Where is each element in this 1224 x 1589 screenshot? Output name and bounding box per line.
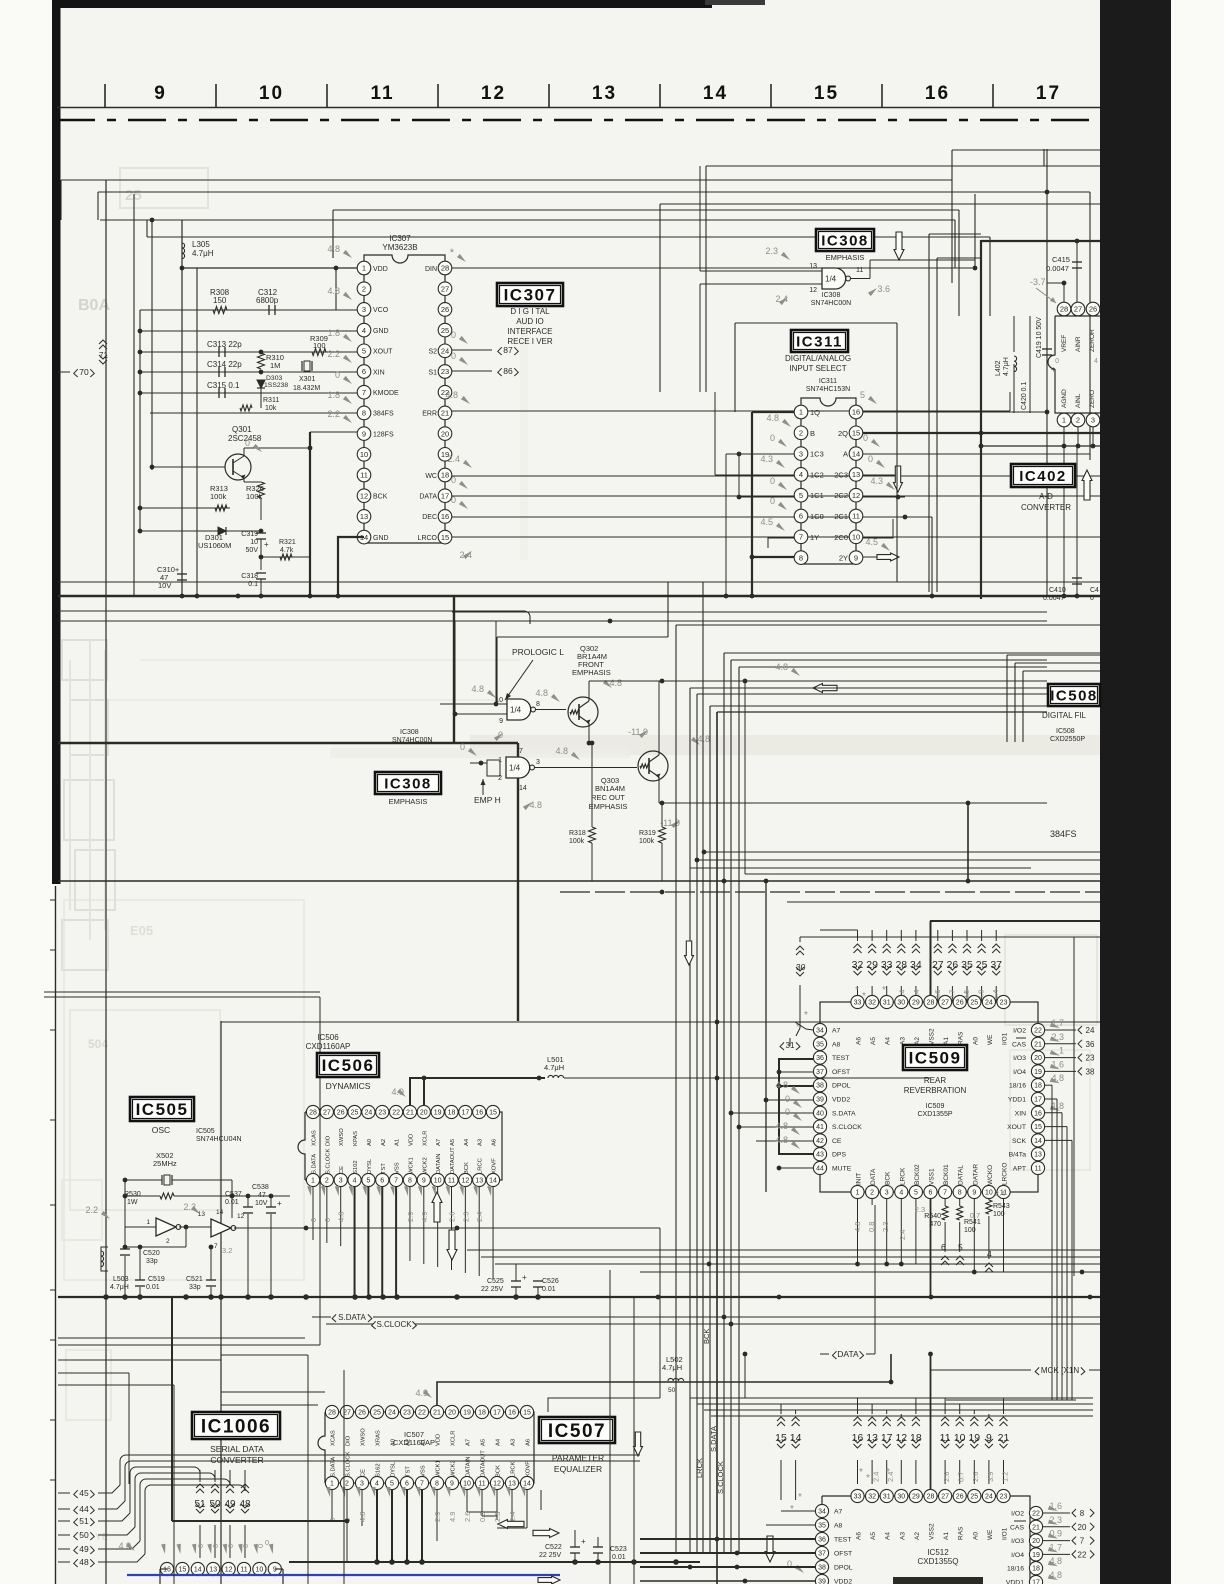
svg-text:6: 6 (380, 1178, 384, 1185)
svg-text:CE: CE (361, 1469, 367, 1477)
svg-text:*: * (790, 1504, 794, 1515)
svg-text:4.8: 4.8 (337, 1212, 346, 1222)
svg-text:4.8: 4.8 (1051, 1073, 1064, 1083)
svg-text:1C0: 1C0 (810, 512, 824, 521)
svg-text:4.9: 4.9 (448, 1512, 457, 1522)
svg-text:XOVF: XOVF (492, 1158, 498, 1174)
svg-text:2.3: 2.3 (1049, 1515, 1062, 1525)
svg-text:I/O4: I/O4 (1011, 1552, 1024, 1559)
IC509 pin 36 TEST (813, 1051, 826, 1064)
svg-text:44: 44 (79, 1504, 89, 1514)
svg-text:17: 17 (1036, 83, 1061, 104)
svg-text:LRCC: LRCC (478, 1158, 484, 1174)
svg-text:TST: TST (406, 1466, 412, 1477)
svg-text:RAS: RAS (958, 1031, 965, 1045)
svg-text:1: 1 (1059, 1046, 1064, 1056)
svg-text:1.2: 1.2 (1000, 1472, 1009, 1482)
IC509 pin 14 SCK (1031, 1134, 1044, 1147)
svg-text:A6: A6 (856, 1532, 863, 1540)
IC307 pin 4 GND (357, 323, 371, 337)
svg-text:S.DATA: S.DATA (832, 1110, 856, 1117)
svg-text:0: 0 (451, 495, 456, 505)
IC307 pin 13 (357, 510, 371, 524)
svg-text:100: 100 (993, 1211, 1005, 1218)
svg-text:WCK2: WCK2 (422, 1157, 428, 1174)
capacitor C319 (256, 532, 266, 534)
svg-text:9: 9 (854, 553, 858, 562)
IC509 pin 32 A5 (866, 995, 879, 1008)
capacitor C410 (1076, 446, 1078, 596)
IC509 pin 4 LRCK (895, 1185, 908, 1198)
svg-text:XOUT: XOUT (1007, 1124, 1026, 1131)
svg-text:A8: A8 (834, 1523, 843, 1530)
IC509 chip body (820, 1002, 1038, 1192)
svg-text:A7: A7 (832, 1028, 841, 1035)
svg-text:IC1006: IC1006 (201, 1416, 271, 1437)
svg-text:7: 7 (420, 1481, 424, 1488)
svg-text:16: 16 (508, 1410, 516, 1417)
svg-text:15: 15 (489, 1110, 497, 1117)
wire ERR pin21 (452, 410, 1010, 412)
svg-text:0.7: 0.7 (970, 1211, 980, 1220)
svg-text:OFST: OFST (834, 1551, 852, 1558)
IC507 pin 5 DYSL (385, 1476, 398, 1489)
svg-text:4.8: 4.8 (853, 1222, 862, 1232)
svg-text:100k: 100k (639, 838, 655, 845)
svg-text:A3: A3 (511, 1439, 517, 1446)
svg-text:S.DATA: S.DATA (312, 1154, 318, 1174)
svg-text:4.8: 4.8 (1049, 1570, 1062, 1580)
svg-text:*: * (804, 1010, 808, 1021)
IC507 pin 19 A7 (460, 1405, 473, 1418)
svg-text:-11.9: -11.9 (660, 818, 680, 828)
IC507 pin 9 WCK2 (445, 1476, 458, 1489)
svg-text:A5: A5 (870, 1532, 877, 1540)
IC506 bottom pin wires (312, 1187, 314, 1240)
IC509 pin 29 A2 (909, 995, 922, 1008)
svg-text:BCK: BCK (702, 1329, 711, 1344)
svg-text:11: 11 (448, 1178, 455, 1185)
horizontal wire y681 (589, 680, 1047, 682)
IC509 section frame (930, 920, 1100, 922)
svg-text:16: 16 (441, 512, 449, 521)
small box at bottom (893, 1577, 983, 1584)
svg-text:I/O1: I/O1 (1002, 1032, 1009, 1045)
svg-text:I/O2: I/O2 (1011, 1511, 1024, 1518)
wire DATA pin17 (452, 495, 1100, 497)
IC311 pin 10 2C0 (849, 530, 863, 544)
svg-text:4.7μH: 4.7μH (1003, 357, 1010, 376)
IC311 pin 13 2C3 (849, 468, 863, 482)
thick vertical x518 down (517, 743, 519, 1021)
svg-text:22: 22 (392, 1110, 400, 1117)
svg-text:X301: X301 (299, 376, 315, 383)
svg-text:S1: S1 (428, 369, 437, 376)
svg-text:WE: WE (987, 1529, 994, 1540)
IC512 pin 33 A6 (851, 1489, 864, 1502)
svg-text:22: 22 (1034, 1028, 1042, 1035)
vertical section border x221 (220, 1021, 222, 1584)
svg-text:35: 35 (818, 1523, 826, 1530)
svg-text:C521: C521 (186, 1276, 203, 1283)
svg-text:1/4: 1/4 (509, 764, 521, 773)
svg-text:C420 0.1: C420 0.1 (1021, 381, 1028, 410)
svg-text:LRCK: LRCK (511, 1461, 517, 1477)
svg-text:C523: C523 (610, 1546, 627, 1553)
IC509 pin 2 DATA (866, 1185, 879, 1198)
svg-text:5: 5 (799, 491, 803, 500)
svg-text:XCAS: XCAS (312, 1130, 318, 1146)
svg-text:100k: 100k (569, 838, 585, 845)
svg-text:S.CLOCK: S.CLOCK (716, 1461, 725, 1494)
thick wires to pins 36-44 (779, 1059, 813, 1154)
svg-text:DEC: DEC (422, 514, 437, 521)
svg-text:VDD2: VDD2 (832, 1097, 850, 1104)
IC506 pin 15 A6 (486, 1105, 499, 1118)
svg-text:S2: S2 (428, 349, 437, 356)
svg-text:C415: C415 (1052, 255, 1070, 264)
wire to ADC pins (1063, 283, 1065, 302)
svg-text:0: 0 (785, 1107, 790, 1117)
IC307 pin 16 DEC (438, 510, 452, 524)
svg-text:1.8: 1.8 (1051, 1101, 1064, 1111)
svg-text:26: 26 (956, 1000, 964, 1007)
svg-text:10: 10 (463, 1481, 471, 1488)
small connector box gate B input (487, 760, 500, 776)
svg-text:4.8: 4.8 (775, 1080, 788, 1090)
svg-text:4.8: 4.8 (358, 1512, 367, 1522)
svg-text:11: 11 (856, 267, 863, 274)
svg-text:A4: A4 (885, 1532, 892, 1540)
svg-text:0: 0 (770, 476, 775, 486)
IC311 pin 9 2Y (849, 551, 863, 565)
svg-text:4.8: 4.8 (697, 734, 710, 744)
thick vertical feeder x752 (751, 412, 753, 596)
IC307 pin 5 XOUT (357, 344, 371, 358)
svg-text:6: 6 (799, 512, 803, 521)
svg-text:IC308: IC308 (822, 292, 841, 299)
svg-text:22 25V: 22 25V (539, 1552, 562, 1559)
svg-text:18/16: 18/16 (1009, 1083, 1026, 1090)
svg-text:0: 0 (770, 433, 775, 443)
svg-text:BN1A4M: BN1A4M (595, 784, 625, 793)
IC402 label box (1011, 464, 1075, 487)
svg-text:A1: A1 (421, 1439, 427, 1446)
thick wire to IC512 pin 28 (930, 1354, 932, 1489)
svg-text:2.9: 2.9 (433, 1512, 442, 1522)
svg-text:25: 25 (441, 326, 449, 335)
IC311 pin 6 1C0 (794, 509, 808, 523)
svg-text:A6: A6 (526, 1439, 532, 1446)
svg-text:15: 15 (523, 1410, 531, 1417)
svg-text:2.6: 2.6 (942, 1472, 951, 1482)
svg-text:2.4: 2.4 (995, 1189, 1005, 1198)
svg-text:23: 23 (378, 1110, 386, 1117)
svg-text:25: 25 (970, 1000, 978, 1007)
svg-text:17: 17 (1032, 1580, 1040, 1584)
svg-text:B/4Ta: B/4Ta (1009, 1152, 1027, 1159)
svg-text:12: 12 (481, 83, 506, 104)
IC506 pin 20 XCLR (417, 1105, 430, 1118)
svg-text:7: 7 (1080, 1537, 1085, 1546)
IC311 pin 2 B (794, 426, 808, 440)
IC509 pin 18 18/16 (1031, 1079, 1044, 1092)
svg-text:A6: A6 (492, 1139, 498, 1146)
svg-text:2.3: 2.3 (765, 246, 778, 256)
IC512 pin 31 A4 (880, 1489, 893, 1502)
IC506 pin 27 DIO (320, 1105, 333, 1118)
svg-text:YM3623B: YM3623B (382, 243, 417, 252)
IC307 pin 20 (438, 427, 452, 441)
svg-text:REC OUT: REC OUT (591, 793, 625, 802)
svg-text:13: 13 (209, 1567, 217, 1574)
transistor Q302 front emphasis (568, 697, 598, 727)
svg-text:13: 13 (852, 470, 860, 479)
svg-text:70: 70 (79, 367, 89, 377)
svg-text:DPOL: DPOL (832, 1083, 851, 1090)
svg-text:CXD1160AP: CXD1160AP (393, 1438, 435, 1447)
wire S2 to connector 87 (452, 349, 492, 351)
hollow arrow right bottom (538, 1576, 560, 1584)
svg-text:A4: A4 (464, 1138, 470, 1146)
svg-text:26: 26 (441, 305, 449, 314)
svg-text:44: 44 (816, 1166, 824, 1173)
IC506 pin 28 XCAS (306, 1105, 319, 1118)
svg-text:2: 2 (325, 1178, 329, 1185)
svg-text:29: 29 (912, 1494, 920, 1501)
IC507 pin 23 A2 (400, 1405, 413, 1418)
svg-text:1W: 1W (127, 1199, 138, 1206)
svg-text:26: 26 (956, 1494, 964, 1501)
svg-text:37: 37 (818, 1551, 826, 1558)
svg-text:CXD1160AP: CXD1160AP (306, 1042, 351, 1051)
svg-text:34: 34 (818, 1509, 826, 1516)
svg-text:19: 19 (434, 1110, 442, 1117)
IC506 pin 4 S102 (348, 1173, 361, 1186)
IC507 pin 17 A4 (490, 1405, 503, 1418)
svg-text:13: 13 (475, 1178, 483, 1185)
svg-text:1/4: 1/4 (825, 275, 837, 284)
svg-text:IC506: IC506 (317, 1033, 339, 1042)
IC507 pin 3 CE (355, 1476, 368, 1489)
svg-text:27: 27 (941, 1494, 949, 1501)
IC311 chip body (801, 398, 856, 406)
hollow arrow down near IC308 (894, 232, 904, 260)
svg-text:128FS: 128FS (373, 431, 394, 438)
svg-text:33p: 33p (146, 1258, 158, 1265)
IC307 pin 24 S2 (438, 344, 452, 358)
svg-text:SN74HC00N: SN74HC00N (811, 300, 851, 307)
IC506 pin 21 VDD (403, 1105, 416, 1118)
IC507 pin 12 BCK (490, 1476, 503, 1489)
svg-text:86: 86 (503, 366, 513, 376)
svg-text:11: 11 (360, 471, 368, 480)
svg-text:38: 38 (818, 1565, 826, 1572)
svg-text:9: 9 (972, 1190, 976, 1197)
svg-text:16: 16 (163, 1567, 171, 1574)
IC512 chip body (822, 1496, 1030, 1584)
svg-text:4.9: 4.9 (118, 1541, 131, 1551)
svg-text:S.DATA: S.DATA (338, 1313, 366, 1322)
svg-text:A4: A4 (496, 1438, 502, 1446)
IC506 pin 14 XOVF (486, 1173, 499, 1186)
lower area horizontal stubs (221, 1391, 325, 1393)
IC509 pin 11 LRCKO (997, 1185, 1010, 1198)
bottom chip pin 14 (191, 1562, 204, 1575)
svg-text:40: 40 (816, 1110, 824, 1117)
svg-text:A7: A7 (466, 1439, 472, 1446)
svg-text:REVERBRATION: REVERBRATION (904, 1086, 967, 1095)
svg-text:B: B (810, 429, 815, 438)
IC307 pin 2 (357, 282, 371, 296)
svg-text:S.CLOCK: S.CLOCK (832, 1124, 862, 1131)
svg-text:BCK: BCK (885, 1171, 892, 1185)
thick vertical x968 (967, 803, 969, 881)
svg-text:14: 14 (1034, 1138, 1042, 1145)
svg-text:DATA: DATA (837, 1349, 859, 1359)
svg-text:IC508: IC508 (1056, 728, 1075, 735)
transistor Q303 rec out emphasis (638, 751, 668, 781)
svg-text:25: 25 (976, 959, 988, 971)
svg-text:2.4: 2.4 (508, 1512, 517, 1522)
IC509 pin 3 BCK (880, 1185, 893, 1198)
wire gate A output to Q302 (536, 709, 566, 711)
inverter gate 2 (211, 1219, 231, 1237)
IC506 chip body (298, 1112, 502, 1180)
IC509 pin 40 S.DATA (813, 1106, 826, 1119)
IC308 label box lower (375, 772, 441, 794)
wire 128FS pin9 (310, 431, 357, 433)
svg-text:A5: A5 (481, 1439, 487, 1446)
IC307 pin 27 (438, 282, 452, 296)
svg-text:*: * (859, 1467, 863, 1478)
IC311 pin 3 1C3 (794, 447, 808, 461)
svg-text:SN74HC153N: SN74HC153N (806, 386, 850, 393)
svg-text:1: 1 (362, 264, 366, 273)
svg-text:3: 3 (362, 305, 366, 314)
resistor R541 (957, 1206, 963, 1220)
svg-text:8: 8 (408, 1178, 412, 1185)
svg-text:3: 3 (799, 449, 803, 458)
svg-text:AUD IO: AUD IO (516, 317, 544, 326)
wire DIN pin 28 (452, 267, 975, 269)
svg-text:A5: A5 (450, 1139, 456, 1146)
IC509 pin 30 A3 (895, 995, 908, 1008)
inverter2 output wire (234, 1227, 660, 1229)
IC506 pin 7 VSS (390, 1173, 403, 1186)
IC507 pin 2 S.CLOCK (340, 1476, 353, 1489)
svg-text:7: 7 (362, 388, 366, 397)
svg-text:+: + (277, 1199, 282, 1208)
IC509 pin 37 OFST (813, 1065, 826, 1078)
svg-text:I/O3: I/O3 (1011, 1538, 1024, 1545)
svg-text:-3.7: -3.7 (1030, 277, 1046, 287)
IC307 pin 8 384FS (357, 406, 371, 420)
svg-text:25: 25 (351, 1110, 359, 1117)
svg-text:R543: R543 (993, 1203, 1010, 1210)
IC506 pin 5 DYSL (362, 1173, 375, 1186)
svg-text:8: 8 (799, 553, 803, 562)
svg-text:36: 36 (818, 1537, 826, 1544)
IC506 pin 22 A1 (390, 1105, 403, 1118)
svg-text:32: 32 (868, 1000, 876, 1007)
svg-text:C410: C410 (1049, 587, 1066, 594)
IC307 pin 28 DIN (438, 261, 452, 275)
svg-text:*: * (882, 985, 886, 996)
IC307 pin 15 LRCO (438, 530, 452, 544)
IC512 pin 22 I/O2 (1029, 1506, 1042, 1519)
svg-text:16: 16 (852, 1432, 864, 1444)
IC311 pin 12 2C2 (849, 488, 863, 502)
svg-text:XWSO: XWSO (361, 1428, 367, 1446)
svg-text:2.4: 2.4 (898, 1230, 907, 1240)
svg-text:A0: A0 (367, 1139, 373, 1146)
svg-text:10: 10 (256, 1567, 264, 1574)
IC512 pin 38 DPOL (815, 1560, 828, 1573)
svg-text:42: 42 (816, 1138, 824, 1145)
svg-text:9: 9 (986, 1432, 992, 1444)
IC402 pin 1 (1057, 413, 1071, 427)
svg-text:*: * (886, 1467, 890, 1478)
svg-text:GND: GND (373, 535, 389, 542)
IC507 pin 10 DATAIN (460, 1476, 473, 1489)
svg-text:BCK: BCK (373, 494, 388, 501)
IC509 pin 15 XOUT (1031, 1120, 1044, 1133)
svg-text:A-D: A-D (1039, 492, 1053, 501)
svg-text:12: 12 (461, 1178, 469, 1185)
IC512 pin 18 18/16 (1029, 1562, 1042, 1575)
svg-text:S.DATA: S.DATA (331, 1457, 337, 1477)
svg-text:VSS: VSS (395, 1162, 401, 1174)
IC512 pin 35 A8 (815, 1518, 828, 1531)
svg-text:EQUALIZER: EQUALIZER (554, 1464, 602, 1474)
wire bus y582 (58, 581, 1100, 583)
IC402 pin 27 (1071, 302, 1085, 316)
svg-text:*: * (798, 1492, 802, 1503)
svg-text:23: 23 (1000, 1494, 1008, 1501)
IC509 pin 23 I/O1 (997, 995, 1010, 1008)
svg-text:37: 37 (816, 1069, 824, 1076)
IC506 pin 3 CE (334, 1173, 347, 1186)
svg-text:ERR: ERR (422, 411, 437, 418)
svg-text:30: 30 (897, 1494, 905, 1501)
IC308 NAND gate 1/4 (822, 268, 846, 289)
wire bus y237 (147, 236, 990, 238)
svg-text:4.3: 4.3 (870, 476, 883, 486)
svg-text:17: 17 (1034, 1097, 1042, 1104)
IC509 pin 5 BCK02 (909, 1185, 922, 1198)
svg-text:VSS: VSS (421, 1465, 427, 1477)
svg-text:22: 22 (418, 1410, 426, 1417)
svg-text:2.6: 2.6 (463, 1512, 472, 1522)
IC307 pin 21 ERR (438, 406, 452, 420)
svg-text:27: 27 (323, 1110, 331, 1117)
IC507 pin 24 A0 (385, 1405, 398, 1418)
svg-text:IC506: IC506 (322, 1056, 375, 1075)
right black bar (1100, 0, 1171, 1584)
svg-text:4.7μH: 4.7μH (110, 1284, 129, 1291)
IC509 pin 9 DATAR (968, 1185, 981, 1198)
svg-text:8: 8 (1080, 1509, 1085, 1518)
svg-text:25: 25 (125, 187, 142, 204)
IC507 bottom wires (331, 1490, 333, 1520)
vertical feeder wires left (105, 180, 107, 1584)
vertical x320 (319, 997, 321, 1345)
svg-text:4.8: 4.8 (775, 1121, 788, 1131)
svg-text:IC307: IC307 (504, 286, 557, 305)
svg-text:4.7μH: 4.7μH (544, 1063, 564, 1072)
IC307 label box (497, 283, 563, 306)
